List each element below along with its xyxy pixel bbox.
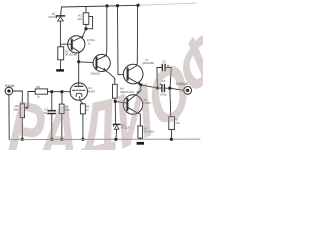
ground xyxy=(56,69,64,71)
node R3 ground xyxy=(61,138,63,140)
node C2 ground xyxy=(51,138,53,140)
plus mark C5 xyxy=(167,65,169,67)
node rail T3 xyxy=(137,4,139,6)
node R7 ground xyxy=(170,138,172,140)
wire bypass loop right of R1 xyxy=(86,16,92,28)
wire T4 collector down xyxy=(137,113,140,126)
wire D2 column xyxy=(114,101,116,123)
wire C2 to rail xyxy=(51,114,53,139)
wire output node to caps xyxy=(141,85,158,88)
node R3 top xyxy=(61,91,63,93)
wire base of T1 xyxy=(60,43,71,45)
wire C2 column xyxy=(51,92,53,110)
diode D1 zener xyxy=(56,16,64,21)
node output junction xyxy=(140,84,142,86)
resistor R6 bottom xyxy=(138,126,143,138)
connector output jack xyxy=(184,87,192,95)
wire bottom ground rail xyxy=(9,138,200,141)
svg-text:Т1: Т1 xyxy=(87,42,91,46)
capacitor C2 xyxy=(48,111,55,114)
wire T4 emitter up to node xyxy=(140,85,142,91)
resistor R2 xyxy=(58,47,64,60)
resistor R4 xyxy=(113,84,118,98)
wire R3 to rail xyxy=(61,114,63,140)
wire R7 to rail xyxy=(170,130,172,140)
wire grid line xyxy=(47,91,70,93)
wire C4 right xyxy=(165,87,170,89)
resistor R5 cathode xyxy=(80,104,85,114)
wire T3 base feed xyxy=(118,6,124,75)
connector input jack xyxy=(5,87,13,95)
wire T2 collector to rail xyxy=(105,6,107,55)
resistor R1 xyxy=(83,13,89,25)
node C2 top xyxy=(51,91,53,93)
node cathode ground xyxy=(82,138,84,140)
node R1 bottom xyxy=(85,28,87,30)
wire faint rail continuation xyxy=(138,3,196,5)
transistor T1 xyxy=(68,36,85,53)
wire top supply rail xyxy=(62,5,139,7)
wire caps bottom left stub xyxy=(157,87,161,89)
potentiometer R9 xyxy=(20,104,28,118)
wire C5 right xyxy=(166,68,172,89)
svg-text:36 (0,5W): 36 (0,5W) xyxy=(65,53,77,57)
wire cathode lead xyxy=(80,96,83,103)
transistor T2 xyxy=(93,54,110,71)
wire pot to rail xyxy=(21,118,23,140)
wire input ground xyxy=(8,95,10,140)
wire D1 column from rail xyxy=(60,7,63,15)
wire plate node to T2 base xyxy=(79,61,93,64)
node rail T3base xyxy=(116,5,118,7)
transistor T4 xyxy=(123,90,142,114)
wire T1 collector down xyxy=(78,52,80,62)
wire wiper riser xyxy=(27,91,29,107)
wire anode column xyxy=(78,62,80,86)
wire R1 column from rail xyxy=(85,6,87,12)
plus mark C4 xyxy=(160,84,162,86)
wire R6 to rail xyxy=(139,138,141,139)
wire R3 column xyxy=(61,92,63,104)
wire pot top riser xyxy=(21,91,23,104)
capacitor C5 xyxy=(162,64,165,70)
capacitor C4 xyxy=(162,85,165,92)
node output right xyxy=(169,87,171,89)
node plate xyxy=(78,61,80,63)
wire node to T4 base xyxy=(115,101,127,103)
node caps left xyxy=(156,87,158,89)
wire to output connector xyxy=(170,88,184,90)
wire R2 to ground xyxy=(60,60,62,69)
wire caps left riser xyxy=(157,68,161,89)
tube V1 triode xyxy=(70,83,87,100)
wire D2 to rail xyxy=(115,129,118,139)
wire R7 column xyxy=(170,88,171,116)
svg-text:КС156: КС156 xyxy=(48,15,57,19)
svg-text:22к: 22к xyxy=(77,17,82,21)
resistor R8 grid series xyxy=(35,89,47,94)
wire input line xyxy=(13,90,23,92)
svg-text:2N5551: 2N5551 xyxy=(90,72,100,76)
wire R5 to rail xyxy=(82,114,84,139)
wire R4 to node xyxy=(114,98,116,101)
node rail T2 xyxy=(106,5,108,7)
resistor R3 xyxy=(59,104,64,113)
node R4 bottom xyxy=(114,100,116,102)
wire pot to R8 xyxy=(28,91,35,93)
node D2 ground xyxy=(115,138,117,140)
wire T3 collector to rail xyxy=(136,5,137,66)
wire R1 to node xyxy=(85,24,87,28)
transistor T3 xyxy=(123,64,143,85)
node pot ground xyxy=(21,138,23,140)
wire node to T1 emitter xyxy=(82,29,86,37)
diode D2 zener xyxy=(113,124,120,129)
wire T2 emitter to R4 xyxy=(106,71,115,85)
resistor R7 xyxy=(169,117,175,130)
wire D1 to base node xyxy=(59,21,61,47)
ground chassis bar xyxy=(137,142,144,145)
